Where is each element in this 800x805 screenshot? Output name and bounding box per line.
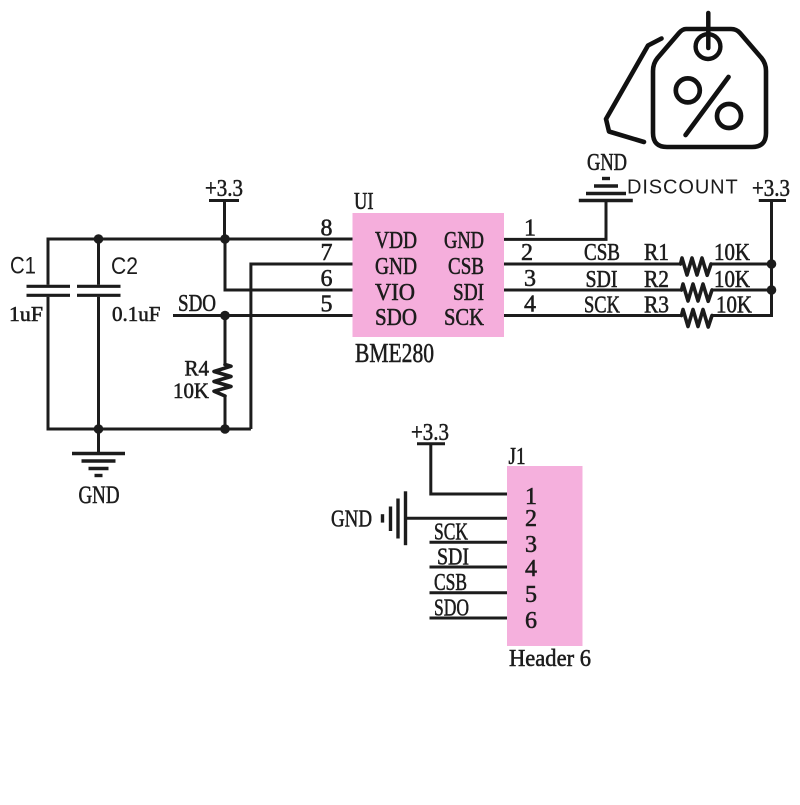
wire bottom rail GND net (47, 428, 251, 431)
svg-text:UI: UI (354, 189, 374, 215)
wire J1 pin3 SCK (430, 541, 508, 544)
svg-text:SCK: SCK (434, 520, 468, 546)
wire J1 pin6 SDO (430, 617, 508, 620)
svg-text:SDI: SDI (437, 545, 469, 571)
wire SDO / pin5 (173, 314, 353, 317)
svg-text:CSB: CSB (434, 570, 467, 596)
junction dot top rail / +3.3 (220, 234, 230, 244)
junction dot bottom rail / GND (94, 424, 104, 434)
resistor R1 (681, 258, 712, 275)
op-amp U1: BME280 IC body (353, 213, 505, 337)
svg-text:R2: R2 (644, 267, 669, 293)
svg-text:4: 4 (524, 292, 536, 318)
svg-text:8: 8 (321, 216, 333, 242)
svg-text:GND: GND (587, 150, 627, 176)
svg-text:R3: R3 (644, 293, 669, 319)
svg-text:10K: 10K (714, 240, 751, 266)
svg-text:C2: C2 (111, 253, 138, 280)
svg-text:SDO: SDO (375, 305, 417, 331)
svg-text:SDI: SDI (453, 280, 484, 306)
capacitor C1 (27, 238, 71, 431)
svg-text:VIO: VIO (375, 280, 415, 306)
wire R1 to +3.3 rail (711, 263, 772, 266)
junction dot top rail / C2 (94, 234, 104, 244)
svg-text:VDD: VDD (375, 228, 417, 254)
wire J1 pin2 GND (406, 517, 508, 520)
wire J1 pin4 SDI (430, 566, 508, 569)
junction dot R1 / +3.3 (767, 259, 777, 269)
wire R2 to +3.3 rail (712, 289, 772, 292)
discount tag icon: main tag body (653, 29, 766, 147)
wire R3 to +3.3 rail (712, 314, 772, 317)
svg-text:1: 1 (524, 216, 536, 242)
svg-text:SCK: SCK (444, 305, 485, 331)
svg-text:10K: 10K (714, 267, 751, 293)
junction dot bottom rail / R4 (220, 424, 230, 434)
discount tag icon: hole (696, 34, 721, 59)
svg-text:CSB: CSB (448, 254, 484, 280)
discount tag icon: percent sign (676, 77, 741, 135)
svg-text:6: 6 (321, 266, 333, 292)
svg-text:2: 2 (521, 240, 533, 266)
svg-text:6: 6 (525, 608, 537, 634)
ground symbol (top right, inverted) (579, 179, 633, 201)
svg-text:+3.3: +3.3 (752, 176, 790, 202)
svg-text:5: 5 (525, 582, 537, 608)
discount tag icon: string (706, 13, 711, 48)
ground symbol (bottom left) (72, 429, 125, 476)
svg-text:SCK: SCK (584, 293, 621, 319)
svg-text:R4: R4 (185, 356, 210, 381)
svg-text:C1: C1 (10, 253, 36, 280)
wire +3.3 to J1 pin1 (431, 444, 507, 494)
svg-text:J1: J1 (509, 444, 526, 470)
ground symbol (J1, rotated left) (383, 491, 406, 545)
svg-text:DISCOUNT: DISCOUNT (627, 177, 739, 199)
resistor R4 (214, 316, 231, 430)
svg-text:GND: GND (331, 507, 372, 533)
svg-text:CSB: CSB (584, 240, 620, 266)
resistor R3 (682, 310, 713, 328)
svg-text:3: 3 (525, 532, 537, 558)
wire pin3 SDI row (504, 289, 682, 292)
svg-text:SDO: SDO (178, 291, 216, 317)
power +3.3 (top left) (205, 176, 243, 239)
svg-text:R1: R1 (644, 240, 669, 266)
svg-text:+3.3: +3.3 (205, 176, 243, 202)
capacitor C2 (77, 239, 121, 429)
resistor R2 (682, 284, 713, 301)
power +3.3 (J1) (411, 420, 449, 446)
svg-text:0.1uF: 0.1uF (112, 302, 161, 326)
svg-text:7: 7 (321, 240, 333, 266)
wire pin4 SCK row (504, 314, 682, 317)
svg-text:GND: GND (79, 482, 120, 509)
discount tag icon: back tag (606, 39, 662, 143)
wire pin2 CSB row (504, 263, 681, 266)
svg-text:5: 5 (321, 292, 333, 318)
svg-text:10K: 10K (173, 378, 209, 403)
pin labels inside U1 left column (375, 228, 417, 331)
wire +3.3 vertical rail (right) (770, 201, 773, 318)
wire VIO / pin6 from +3.3 rail (225, 239, 353, 290)
header J1 box (507, 466, 583, 646)
svg-text:SDO: SDO (434, 596, 469, 622)
junction dot SDO / R4 (220, 311, 230, 321)
svg-text:10K: 10K (716, 293, 753, 319)
svg-text:+3.3: +3.3 (411, 420, 449, 446)
svg-text:BME280: BME280 (355, 338, 434, 368)
wire pin7 GND to bottom rail (251, 264, 353, 429)
svg-text:GND: GND (444, 228, 484, 254)
svg-text:1uF: 1uF (9, 302, 43, 326)
svg-text:3: 3 (524, 266, 536, 292)
wire top rail VDD net / pin8 (48, 238, 353, 241)
svg-text:SDI: SDI (586, 267, 618, 293)
wire pin1 to GND symbol (top right) (504, 202, 606, 239)
svg-text:2: 2 (525, 506, 537, 532)
svg-text:GND: GND (375, 254, 417, 280)
svg-text:Header 6: Header 6 (509, 646, 591, 672)
svg-text:4: 4 (525, 556, 537, 582)
pin labels inside U1 right column (444, 228, 485, 331)
junction dot R2 / +3.3 (767, 285, 777, 295)
wire J1 pin5 CSB (430, 591, 508, 594)
power +3.3 (top right) (752, 176, 790, 202)
